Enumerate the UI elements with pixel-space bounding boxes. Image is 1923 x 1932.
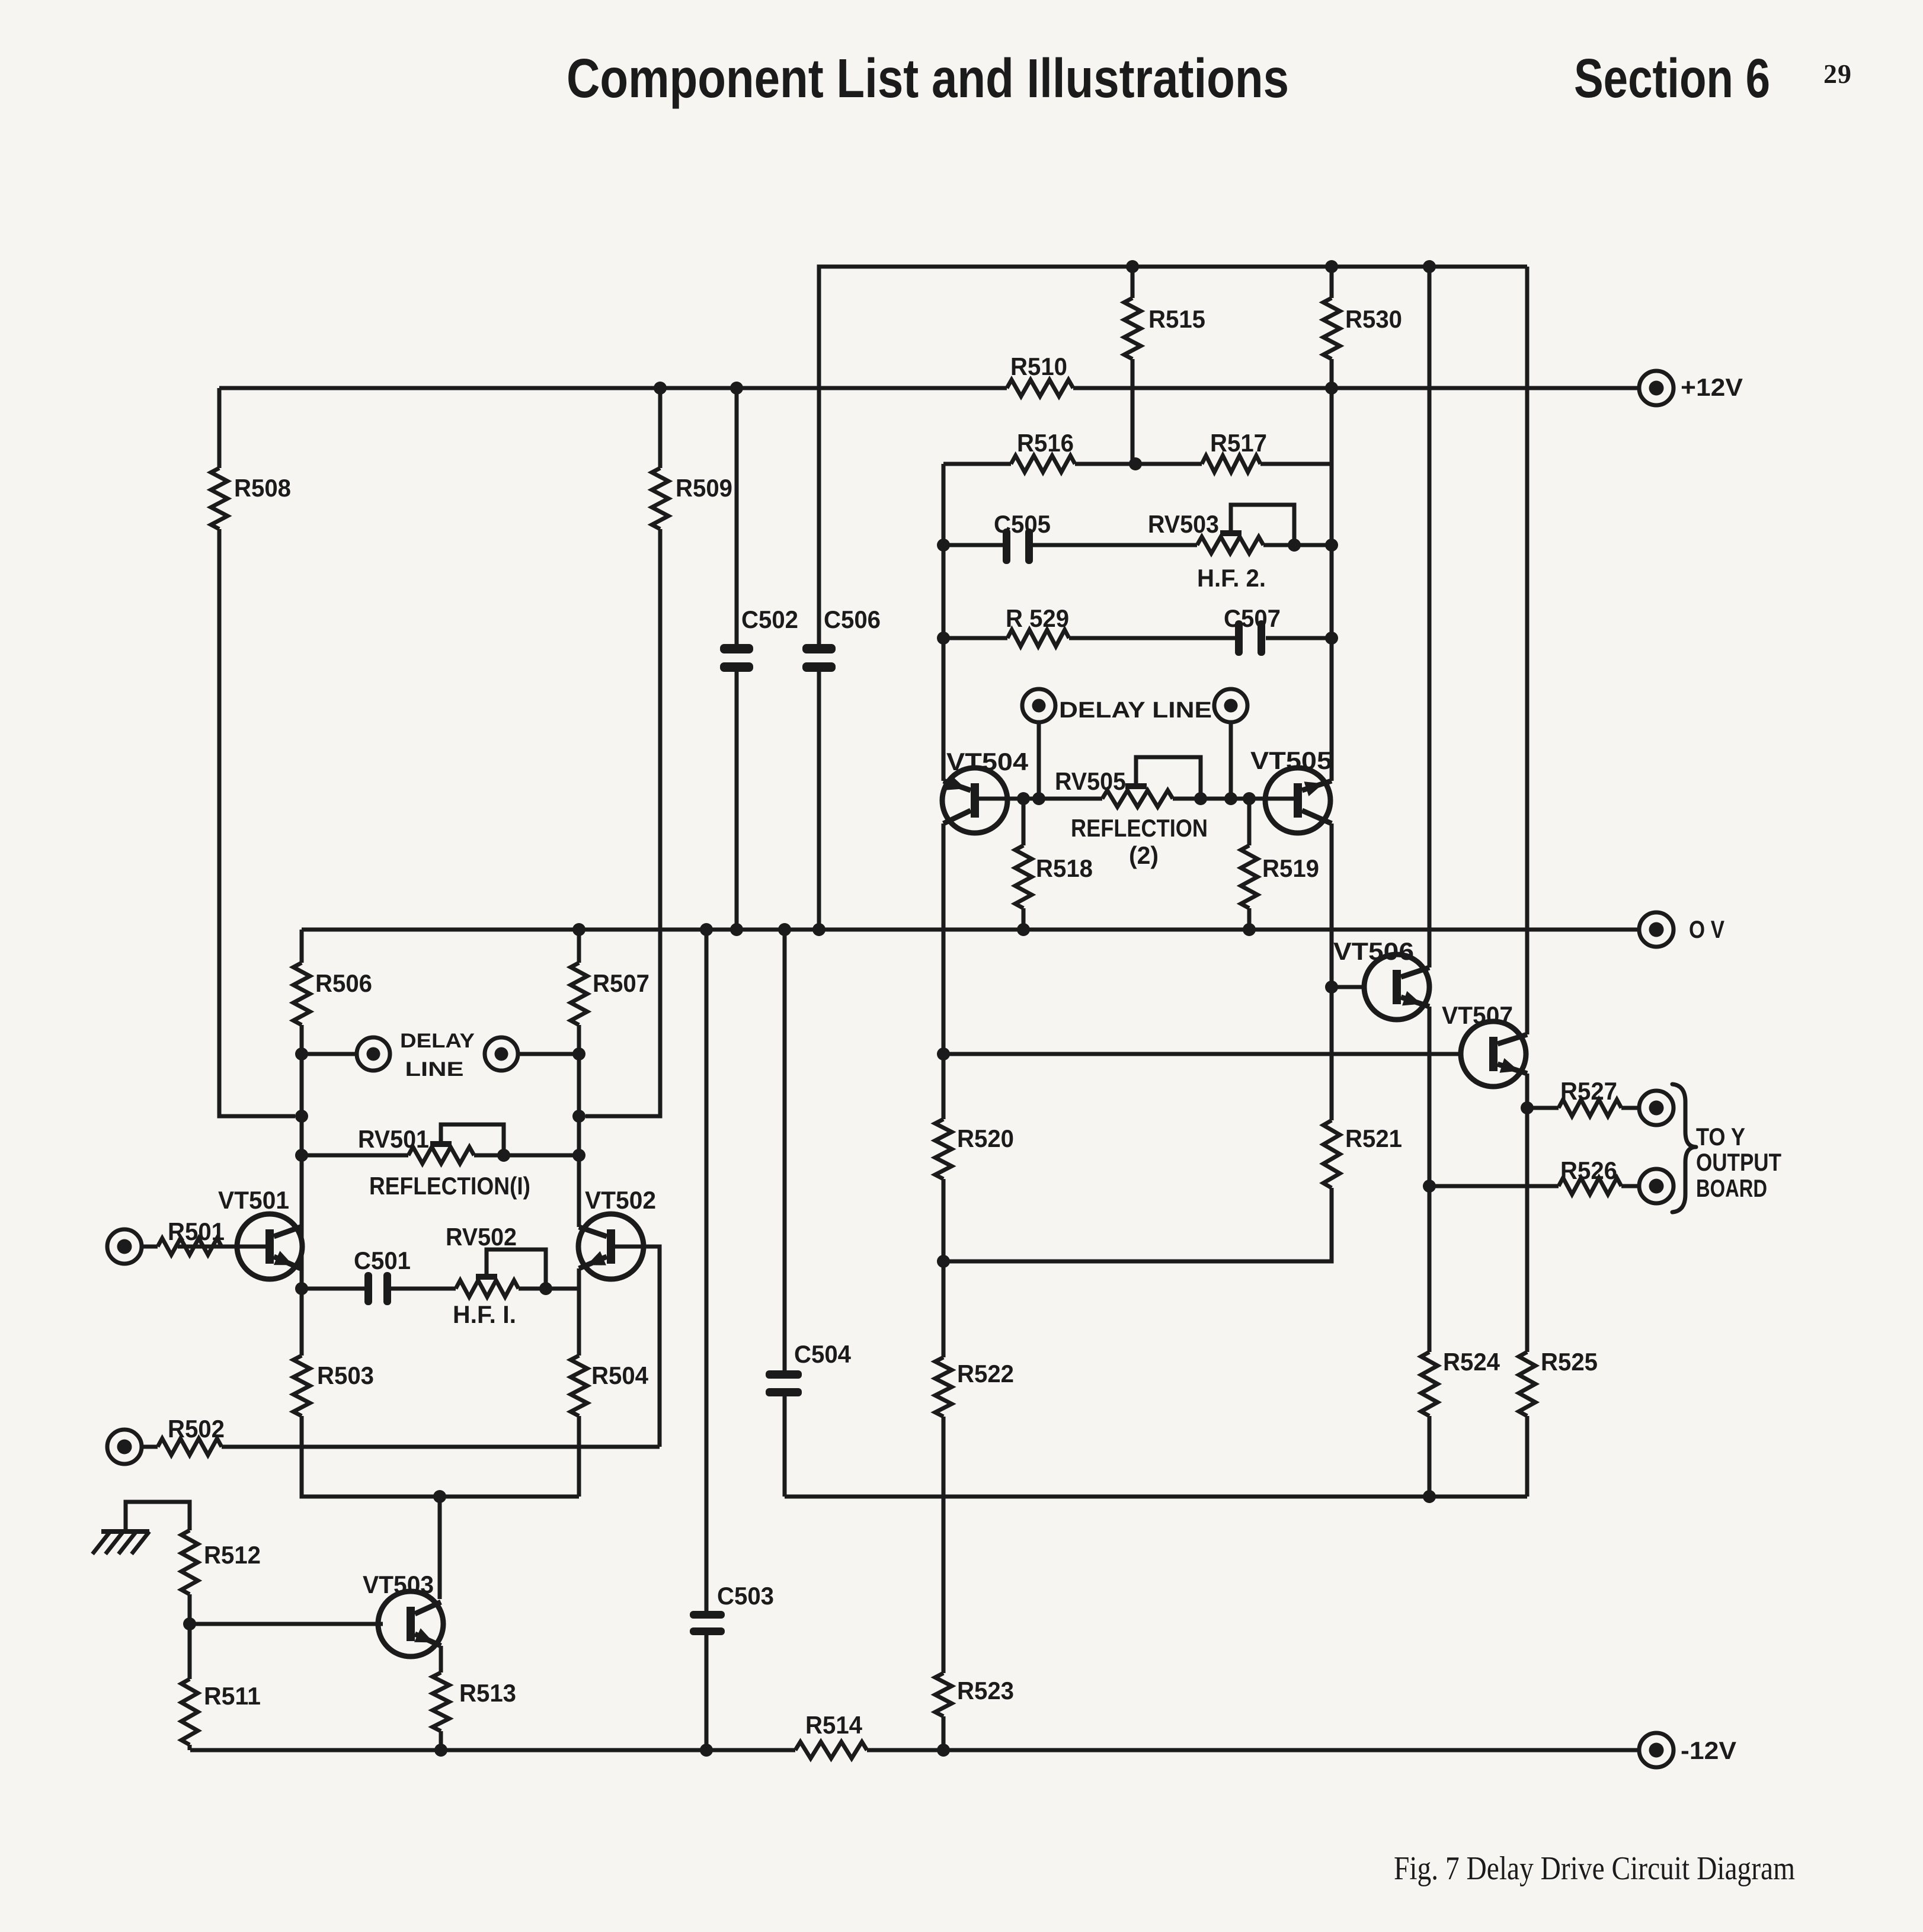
svg-text:R519: R519 — [1262, 854, 1319, 882]
svg-text:R530: R530 — [1345, 305, 1402, 333]
junction R524 column bottom — [1423, 1490, 1436, 1503]
svg-text:VT502: VT502 — [585, 1186, 656, 1214]
capacitor C505 — [1003, 528, 1010, 564]
wire column S — [1428, 267, 1432, 967]
junction VT503 base node — [183, 1617, 196, 1630]
wire 0V rail — [302, 928, 1639, 932]
junction R508 bottom row — [295, 1110, 308, 1123]
resistor R526 — [1559, 1178, 1621, 1194]
wire column R — [1330, 464, 1334, 781]
junction delay stub A bottom — [1032, 792, 1045, 805]
junction C504 line top — [778, 923, 791, 936]
resistor R524 — [1421, 1352, 1438, 1416]
wire R526 row — [1429, 1184, 1559, 1188]
resistor R506 — [293, 963, 310, 1025]
terminal 0V — [1639, 912, 1674, 947]
wire R515 column — [1131, 267, 1135, 298]
wire +12V rail — [219, 386, 1007, 390]
svg-text:C505: C505 — [994, 510, 1051, 538]
capacitor C507 — [1235, 620, 1243, 656]
svg-text:R506: R506 — [315, 969, 372, 997]
resistor R522 — [935, 1357, 952, 1417]
junction R529 row right — [1325, 632, 1338, 645]
svg-text:DELAY: DELAY — [400, 1030, 475, 1052]
junction R520-R521 bus — [937, 1255, 950, 1268]
svg-text:R509: R509 — [676, 474, 732, 502]
junction R530 bottom — [1325, 382, 1338, 395]
wire top rail — [819, 267, 1527, 644]
junction R523 bottom — [937, 1744, 950, 1757]
resistor R507 — [571, 963, 587, 1025]
resistor R501 — [158, 1238, 222, 1255]
svg-text:R517: R517 — [1210, 429, 1267, 457]
svg-text:O V: O V — [1689, 915, 1724, 943]
wire column B (R506/VT501/R503) — [300, 930, 304, 963]
wire delay stub A — [1037, 722, 1041, 799]
wire R516-R517 row — [943, 462, 1011, 466]
junction delay stub B bottom — [1224, 792, 1237, 805]
transistor VT506 — [1364, 954, 1429, 1020]
svg-text:R518: R518 — [1036, 854, 1093, 882]
junction VT506 base — [1325, 981, 1338, 994]
junction C505 row left — [937, 539, 950, 552]
svg-text:REFLECTION(I): REFLECTION(I) — [369, 1172, 530, 1200]
junction C505 row right — [1325, 539, 1338, 552]
svg-text:C502: C502 — [741, 605, 798, 633]
wire column E — [577, 930, 581, 963]
terminal R501 input — [107, 1229, 142, 1264]
wire C503 lower — [705, 1635, 709, 1750]
svg-text:R524: R524 — [1443, 1348, 1500, 1376]
junction R515 bottom — [1129, 457, 1142, 470]
svg-text:TO Y: TO Y — [1696, 1123, 1745, 1151]
svg-text:VT504: VT504 — [946, 748, 1029, 776]
potentiometer RV503 — [1197, 537, 1263, 553]
junction R509 top — [654, 382, 667, 395]
resistor R509 — [652, 468, 668, 529]
transistor VT502 — [578, 1214, 644, 1279]
wire R503-VT503-R504 bottom link — [433, 1495, 579, 1499]
transistor VT505 — [1265, 768, 1330, 833]
resistor R504 — [571, 1356, 587, 1416]
resistor R514 — [795, 1742, 867, 1758]
junction VT503 collector — [433, 1490, 446, 1503]
wire VT507 base — [943, 1052, 1461, 1056]
resistor R516 — [1011, 456, 1075, 472]
resistor R520 — [935, 1119, 952, 1179]
capacitor C506 — [802, 644, 836, 653]
junction R518 bottom — [1017, 923, 1030, 936]
junction RV501 wiper link — [497, 1149, 510, 1162]
wire R526 to terminal — [1621, 1184, 1639, 1188]
transistor VT507 — [1461, 1021, 1526, 1087]
junction R519 top — [1243, 792, 1256, 805]
svg-text:R503: R503 — [317, 1361, 374, 1389]
resistor R521 — [1323, 1120, 1340, 1188]
resistor R529 — [1007, 630, 1069, 646]
resistor R508 — [211, 468, 228, 529]
terminal delay line left B — [485, 1037, 518, 1071]
junction R529 row left — [937, 632, 950, 645]
junction RV502 wiper link — [539, 1282, 552, 1295]
svg-text:+12V: +12V — [1681, 373, 1743, 401]
svg-text:-12V: -12V — [1681, 1736, 1736, 1764]
terminal +12V — [1639, 371, 1674, 405]
wire C503 upper — [705, 930, 709, 1611]
capacitor C503 — [690, 1611, 725, 1619]
svg-text:R522: R522 — [957, 1360, 1014, 1388]
wire delay stub B — [1229, 722, 1233, 799]
svg-text:RV502: RV502 — [446, 1223, 517, 1251]
svg-text:DELAY LINE: DELAY LINE — [1059, 698, 1212, 723]
wire VT503 collector — [438, 1497, 442, 1599]
junction delay-line left — [295, 1047, 308, 1060]
wire delay line left lead — [302, 1052, 357, 1056]
resistor R502 — [158, 1438, 222, 1455]
svg-text:R508: R508 — [234, 474, 291, 502]
potentiometer RV501 — [408, 1147, 474, 1164]
wire ground to R512 — [126, 1502, 190, 1531]
transistor VT501 — [237, 1214, 302, 1279]
ground — [101, 1529, 149, 1534]
svg-text:VT505: VT505 — [1250, 746, 1332, 774]
svg-text:R 529: R 529 — [1006, 604, 1069, 632]
potentiometer RV505 — [1102, 790, 1173, 807]
svg-text:REFLECTION: REFLECTION — [1071, 814, 1208, 842]
svg-text:C501: C501 — [354, 1247, 411, 1274]
svg-text:RV503: RV503 — [1148, 510, 1219, 538]
junction R515 top — [1126, 260, 1139, 273]
svg-text:H.F. 2.: H.F. 2. — [1197, 564, 1266, 592]
svg-text:VT507: VT507 — [1442, 1001, 1513, 1029]
junction delay-line right — [572, 1047, 585, 1060]
resistor R525 — [1519, 1352, 1535, 1416]
wire VT504-VT505 base row — [979, 797, 1102, 801]
wire VT506 base — [1332, 985, 1364, 989]
junction VT501 emitter node — [295, 1282, 308, 1295]
junction R519 bottom — [1243, 923, 1256, 936]
svg-text:C507: C507 — [1224, 604, 1281, 632]
svg-text:RV505: RV505 — [1055, 767, 1126, 795]
wire column K — [942, 464, 946, 781]
wire R527 lead — [1527, 1106, 1559, 1110]
svg-text:LINE: LINE — [405, 1058, 464, 1081]
resistor R527 — [1559, 1100, 1621, 1116]
svg-text:C503: C503 — [717, 1582, 774, 1610]
svg-text:R504: R504 — [591, 1361, 649, 1389]
svg-text:R516: R516 — [1017, 429, 1074, 457]
svg-text:(2): (2) — [1129, 841, 1159, 869]
junction C506 bottom — [812, 923, 825, 936]
terminal -12V — [1639, 1733, 1674, 1767]
junction RV503 wiper link — [1288, 539, 1301, 552]
svg-text:OUTPUT: OUTPUT — [1696, 1148, 1781, 1176]
wire C504 lower — [783, 1396, 787, 1497]
resistor R530 — [1323, 298, 1340, 359]
wire R511 tail — [188, 1745, 192, 1750]
svg-text:R501: R501 — [168, 1217, 225, 1245]
transistor VT503 — [378, 1591, 443, 1657]
resistor R523 — [935, 1673, 952, 1716]
junction R513 bottom — [434, 1744, 447, 1757]
svg-text:R520: R520 — [957, 1124, 1014, 1152]
svg-text:C504: C504 — [794, 1340, 852, 1368]
wire column T — [1525, 267, 1530, 1034]
wire R509 column — [658, 388, 663, 468]
terminal R527 output — [1639, 1091, 1674, 1125]
svg-text:Component List and Illustratio: Component List and Illustrations — [567, 47, 1289, 109]
resistor R511 — [181, 1679, 198, 1745]
junction R518 top — [1017, 792, 1030, 805]
wire R508 column — [217, 388, 222, 468]
svg-text:VT503: VT503 — [363, 1571, 434, 1598]
wire C504 to R524/R525 bottom link — [785, 1495, 1527, 1499]
junction C502 top — [730, 382, 743, 395]
svg-text:R502: R502 — [168, 1415, 225, 1443]
wire VT503 base — [190, 1622, 383, 1626]
resistor R518 — [1022, 799, 1026, 845]
wire C504 upper — [783, 930, 787, 1370]
svg-text:R512: R512 — [204, 1541, 261, 1569]
svg-text:R511: R511 — [204, 1682, 261, 1710]
terminal delay line right A — [1022, 689, 1055, 722]
svg-text:R507: R507 — [593, 969, 649, 997]
junction R507 top — [572, 923, 585, 936]
brace and label TO Y OUTPUT BOARD — [1672, 1084, 1696, 1212]
wire VT501 base — [178, 1245, 265, 1249]
resistor R515 — [1124, 298, 1141, 359]
svg-text:VT506: VT506 — [1333, 937, 1414, 965]
resistor R517 — [1202, 456, 1260, 472]
svg-text:VT501: VT501 — [218, 1186, 289, 1214]
wire C505 row — [943, 543, 1006, 547]
svg-text:R523: R523 — [957, 1677, 1014, 1704]
junction R530 top — [1325, 260, 1338, 273]
wire R530 column — [1330, 267, 1334, 298]
transistor VT504 — [942, 768, 1007, 833]
svg-text:R515: R515 — [1148, 305, 1205, 333]
svg-text:R521: R521 — [1345, 1124, 1402, 1152]
wire -12V rail — [190, 1748, 795, 1752]
terminal delay line left A — [357, 1037, 390, 1071]
svg-text:R510: R510 — [1010, 353, 1067, 380]
junction RV501 right — [572, 1149, 585, 1162]
resistor R503 — [293, 1356, 310, 1416]
svg-text:R513: R513 — [459, 1679, 516, 1707]
svg-text:Section 6: Section 6 — [1574, 47, 1770, 109]
wire R529 row — [943, 636, 1007, 640]
svg-text:BOARD: BOARD — [1696, 1174, 1767, 1202]
svg-text:C506: C506 — [824, 605, 881, 633]
resistor R519 — [1247, 799, 1252, 845]
wire R527 to terminal — [1621, 1106, 1639, 1110]
terminal R526 output — [1639, 1169, 1674, 1203]
junction VT507 base row — [937, 1047, 950, 1060]
junction C503 line top — [700, 923, 713, 936]
terminal R502 input — [107, 1430, 142, 1464]
capacitor C501 — [364, 1272, 372, 1305]
wire VT501 emitter row — [302, 1287, 364, 1291]
capacitor C502 — [735, 388, 739, 644]
junction C503 bottom — [700, 1744, 713, 1757]
junction RV505 wiper link — [1194, 792, 1207, 805]
svg-text:R525: R525 — [1541, 1348, 1598, 1376]
wire R513 tail — [439, 1731, 443, 1750]
junction R509 bottom row — [572, 1110, 585, 1123]
potentiometer RV502 — [456, 1280, 519, 1297]
resistor R513 — [433, 1673, 449, 1731]
wire RV501 row — [302, 1154, 408, 1158]
resistor R512 — [181, 1530, 198, 1594]
capacitor C504 — [766, 1370, 802, 1379]
junction R526 left — [1423, 1180, 1436, 1193]
svg-text:H.F. I.: H.F. I. — [453, 1300, 516, 1328]
junction R527 left — [1521, 1101, 1534, 1114]
junction C502 bottom — [730, 923, 743, 936]
svg-text:R526: R526 — [1560, 1156, 1617, 1184]
resistor R510 — [1007, 380, 1073, 396]
svg-text:RV501: RV501 — [358, 1125, 429, 1153]
wire VT502 base — [615, 1247, 660, 1447]
svg-text:Fig. 7 Delay Drive Circuit Dia: Fig. 7 Delay Drive Circuit Diagram — [1394, 1850, 1795, 1887]
wire delay line right lead — [518, 1052, 579, 1056]
svg-text:29: 29 — [1823, 59, 1852, 89]
junction RV501 left — [295, 1149, 308, 1162]
svg-text:R514: R514 — [805, 1711, 863, 1739]
terminal delay line right B — [1214, 689, 1247, 722]
svg-text:R527: R527 — [1560, 1077, 1617, 1105]
junction R524 column top — [1423, 260, 1436, 273]
wire R512-R511 link — [188, 1594, 192, 1679]
wire VT503 emitter — [439, 1646, 443, 1673]
wire R502 row — [222, 1445, 660, 1449]
